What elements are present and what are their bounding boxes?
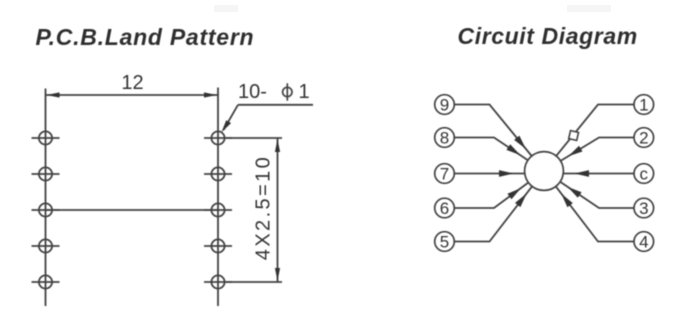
- svg-text:P.C.B.Land Pattern: P.C.B.Land Pattern: [36, 24, 255, 50]
- pad P7: [204, 167, 232, 180]
- wire to terminal 5: [455, 186, 532, 241]
- wire to terminal 7: [455, 170, 525, 177]
- wire to terminal c: [563, 170, 633, 177]
- pad P6: [204, 131, 232, 144]
- terminal 5: [435, 232, 455, 252]
- svg-text:12: 12: [121, 72, 143, 94]
- svg-text:10-: 10-: [238, 81, 267, 103]
- svg-text:1: 1: [639, 96, 648, 115]
- extension line: bottom (from pad P10): [226, 281, 282, 283]
- pad P8: [204, 203, 232, 216]
- svg-text:c: c: [640, 165, 649, 184]
- terminal 4: [634, 232, 654, 252]
- wire to terminal 8: [455, 138, 528, 161]
- wire to terminal 2: [561, 138, 634, 161]
- svg-text:8: 8: [440, 129, 449, 148]
- wire to terminal 6: [455, 183, 529, 209]
- wire: left pad column centerline: [45, 89, 47, 307]
- wire to terminal 3: [560, 182, 634, 208]
- square marker on wire to terminal 1: [569, 131, 579, 141]
- terminal c: [634, 164, 654, 184]
- wire: right pad column centerline: [217, 88, 219, 307]
- terminal 9: [435, 95, 455, 115]
- svg-text:3: 3: [639, 199, 648, 218]
- svg-text:6: 6: [440, 199, 449, 218]
- svg-text:4: 4: [639, 233, 648, 252]
- wire to terminal 9: [455, 105, 532, 157]
- svg-text:2: 2: [639, 129, 648, 148]
- pad P10: [204, 275, 232, 288]
- terminal 8: [435, 128, 455, 148]
- pad P9: [204, 239, 232, 252]
- terminal 1: [634, 95, 654, 115]
- wire to terminal 4: [556, 186, 634, 241]
- pad P1: [32, 131, 60, 144]
- svg-text:Circuit Diagram: Circuit Diagram: [458, 23, 638, 49]
- wire to terminal 1: [556, 105, 633, 156]
- svg-text:9: 9: [440, 96, 449, 115]
- pad P2: [32, 167, 60, 180]
- pad P3: [32, 203, 60, 216]
- wire: middle row connection between pad P3 and pad P8: [46, 209, 219, 211]
- rotor: common contact circle: [525, 152, 564, 191]
- pad P4: [32, 239, 60, 252]
- svg-text:4X2.5=10: 4X2.5=10: [253, 155, 275, 260]
- terminal 6: [435, 198, 455, 218]
- leader: 10-phi1 to pad P6: [221, 105, 313, 133]
- faint scan artifacts at top edge: [214, 5, 238, 12]
- dimension: 12 (horizontal): [46, 92, 219, 97]
- dimension: 4X2.5=10 (vertical): [275, 138, 280, 282]
- value label 10-phi1: [238, 81, 310, 103]
- svg-text:5: 5: [440, 233, 449, 252]
- terminal 2: [634, 128, 654, 148]
- pad P5: [32, 275, 60, 288]
- extension line: top (from pad P6): [226, 137, 282, 139]
- svg-text:7: 7: [440, 165, 449, 184]
- svg-text:1: 1: [299, 81, 310, 103]
- terminal 3: [634, 198, 654, 218]
- terminal 7: [435, 164, 455, 184]
